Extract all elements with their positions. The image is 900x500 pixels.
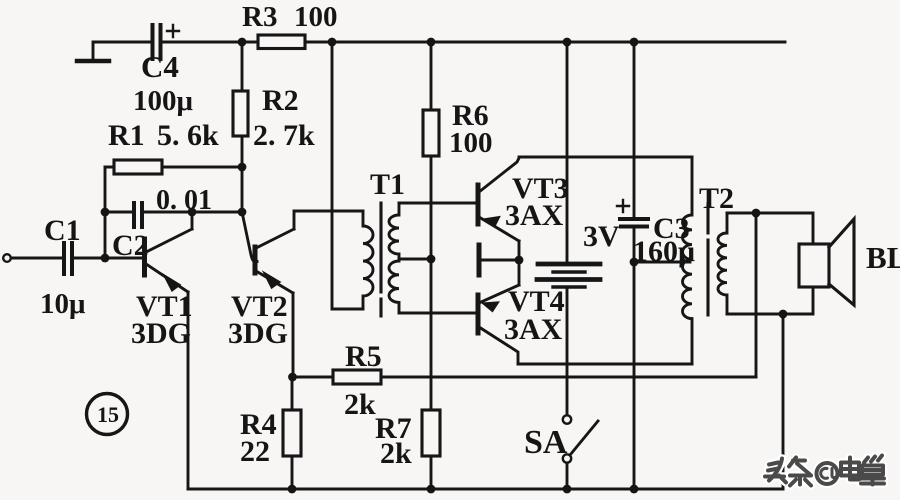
junction: top rail / battery positive [563, 38, 572, 47]
capacitor C2 [105, 211, 242, 214]
junction: T1 secondary centre tap [427, 255, 436, 264]
svg-text:R5: R5 [345, 340, 382, 373]
input terminal [3, 254, 11, 262]
junction: T2 secondary bottom / ground return [779, 310, 788, 319]
wire: VT4 collector rail [518, 363, 692, 366]
wire: R2 bottom to base node [241, 136, 244, 212]
speaker BL [799, 244, 829, 287]
resistor R3 [258, 35, 305, 49]
transistor VT1 [142, 239, 147, 275]
junction: VT1 collector node [188, 208, 197, 217]
svg-text:3AX: 3AX [504, 313, 563, 346]
svg-text:100: 100 [449, 127, 493, 159]
battery plate bar [477, 245, 482, 275]
svg-text:2k: 2k [380, 437, 412, 470]
wire: R6/R7 branch [430, 42, 433, 489]
junction: VT3/VT4 emitter node [515, 256, 524, 265]
junction: bottom rail / switch SA [563, 485, 572, 494]
junction: C1 / VT1 base node [101, 254, 110, 263]
junction: bottom rail / R7 [427, 485, 436, 494]
svg-text:5. 6k: 5. 6k [157, 119, 219, 152]
junction: R1 left / C2 left [101, 208, 110, 217]
svg-text:0. 01: 0. 01 [156, 185, 212, 216]
svg-text:2. 7k: 2. 7k [253, 119, 315, 152]
battery GB 3V [566, 42, 569, 264]
wire: bottom rail [188, 488, 783, 491]
transistor VT4 [476, 295, 481, 333]
wire: feedback vertical to T2 top [755, 213, 758, 377]
capacitor C4 [153, 25, 161, 59]
resistor R2 [233, 91, 248, 136]
resistor R6 [423, 110, 439, 156]
junction: bottom rail / C3 negative [630, 485, 639, 494]
wire: T1 primary bottom to top rail [332, 42, 363, 309]
svg-text:R3: R3 [242, 1, 277, 33]
svg-text:160μ: 160μ [633, 235, 695, 268]
svg-text:R2: R2 [262, 84, 299, 117]
capacitor C1 [11, 257, 145, 260]
svg-text:15: 15 [97, 402, 119, 427]
svg-text:3AX: 3AX [505, 199, 564, 232]
figure number 15 [87, 394, 128, 435]
wire: R1/C2 left vertical [104, 167, 107, 258]
wire: T1 secondary center tap [399, 258, 431, 261]
svg-text:T2: T2 [699, 182, 734, 215]
transformer T2 secondary [718, 213, 727, 314]
resistor R7 [422, 410, 440, 456]
svg-text:C1: C1 [44, 214, 81, 247]
watermark [765, 456, 884, 486]
svg-text:C4: C4 [141, 49, 179, 84]
junction: top rail / T1 primary return [328, 38, 337, 47]
transformer T2 primary [682, 157, 692, 364]
svg-text:100μ: 100μ [133, 85, 194, 117]
svg-text:3DG: 3DG [228, 317, 288, 350]
wire: R2 branch from rail [241, 42, 244, 91]
transistor VT3 [476, 185, 481, 224]
T1 core [379, 203, 382, 316]
svg-text:10μ: 10μ [40, 288, 86, 320]
junction: R2 bottom / VT2 base feed [238, 208, 247, 217]
junction: R3 left / C4 / R2 node [238, 38, 247, 47]
ground [93, 42, 152, 59]
capacitor C3 [633, 42, 636, 218]
wire: T1 secondary top to VT3 base [399, 202, 478, 205]
svg-text:BL: BL [866, 240, 900, 275]
svg-text:100: 100 [294, 1, 338, 33]
junction: C3 / T2 primary centre tap [630, 258, 639, 267]
transformer T1 secondary [389, 203, 399, 313]
junction: VT2 emitter / R4 / R5 node [288, 373, 297, 382]
junction: T2 secondary top / R5 feedback [752, 209, 761, 218]
wire: T1 secondary bottom to VT4 base [399, 312, 478, 315]
switch SA [563, 415, 571, 423]
wire: T2 secondary top to speaker [727, 213, 813, 244]
wire: T2 primary center tap [634, 261, 690, 264]
svg-text:2k: 2k [344, 388, 376, 421]
transformer T1 primary [363, 211, 373, 309]
junction: R1 right / R2 branch [238, 163, 247, 172]
svg-text:R1: R1 [108, 119, 145, 152]
wire: output to bottom rail [782, 314, 785, 489]
junction: top rail / C3 positive [630, 38, 639, 47]
T2 core [706, 204, 709, 315]
resistor R5 [292, 376, 756, 379]
svg-text:3V: 3V [583, 220, 620, 253]
wire: T2 secondary bottom to speaker [727, 287, 813, 314]
junction: bottom rail / R4 [288, 485, 297, 494]
wire: top +V rail [161, 41, 785, 44]
svg-text:C2: C2 [112, 229, 149, 262]
resistor R1 [105, 166, 242, 169]
svg-text:3DG: 3DG [131, 317, 191, 350]
svg-text:22: 22 [240, 435, 270, 468]
transistor VT2 [242, 212, 257, 262]
svg-text:SA: SA [524, 424, 568, 461]
resistor R4 [291, 377, 294, 489]
junction: top rail / R6 [427, 38, 436, 47]
svg-text:T1: T1 [370, 168, 405, 201]
wire: VT3 collector rail [519, 156, 692, 159]
